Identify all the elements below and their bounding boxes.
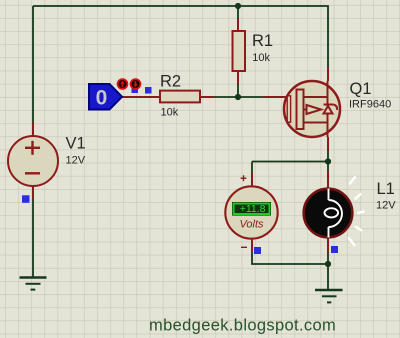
svg-text:V1: V1 — [66, 135, 86, 153]
svg-text:Q1: Q1 — [350, 80, 372, 98]
svg-text:R1: R1 — [252, 32, 273, 50]
svg-text:12V: 12V — [66, 155, 86, 167]
svg-text:10k: 10k — [161, 107, 179, 119]
svg-text:10k: 10k — [252, 52, 270, 64]
svg-text:mbedgeek.blogspot.com: mbedgeek.blogspot.com — [149, 317, 336, 335]
svg-text:Volts: Volts — [239, 219, 264, 231]
svg-text:12V: 12V — [376, 200, 396, 212]
svg-text:L1: L1 — [377, 180, 395, 198]
svg-text:R2: R2 — [160, 73, 181, 91]
svg-text:0: 0 — [96, 87, 108, 110]
svg-text:+11.8: +11.8 — [240, 203, 266, 215]
svg-text:IRF9640: IRF9640 — [349, 99, 391, 111]
